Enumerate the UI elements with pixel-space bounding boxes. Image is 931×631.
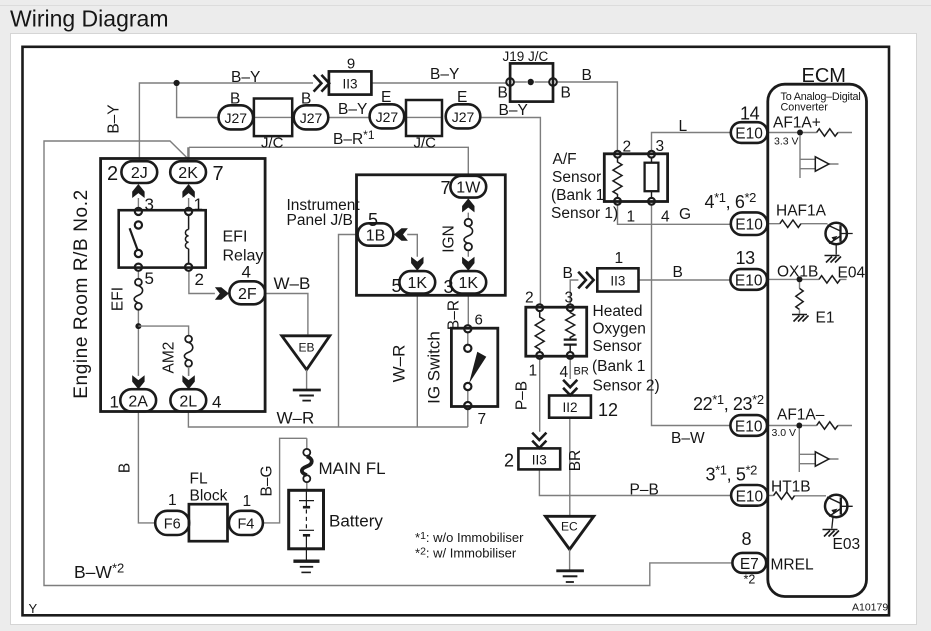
svg-text:II3: II3 [532, 452, 547, 467]
label B after J19 [582, 67, 592, 84]
EFI relay box [119, 210, 206, 267]
svg-text:IGN: IGN [441, 225, 458, 253]
svg-text:EFI: EFI [223, 229, 248, 246]
wire 2K pin 1 stem into relay [188, 198, 190, 208]
node dot AF1A+ [797, 130, 803, 136]
svg-text:5: 5 [392, 276, 402, 296]
wire 2J pin 3 stem into relay [137, 198, 139, 208]
label W-B [274, 274, 311, 293]
connector oval 1W [450, 176, 486, 198]
label 14 pin [740, 104, 760, 124]
svg-text:OX1B: OX1B [777, 264, 818, 281]
connector oval 1B [358, 223, 394, 245]
label *2 under E7 [744, 573, 756, 587]
triangle amplifier EB [282, 336, 330, 370]
svg-text:B–Y: B–Y [338, 101, 367, 118]
wire node down to 2A [137, 329, 139, 376]
wire IGN fuse chain from 1W to 1K pin 3 [467, 213, 469, 257]
svg-text:2A: 2A [128, 393, 148, 410]
svg-text:8: 8 [742, 529, 752, 549]
label B-W [671, 430, 705, 447]
svg-text:G: G [679, 206, 691, 223]
J junction box J19 J/C [510, 63, 553, 101]
svg-text:J19 J/C: J19 J/C [503, 49, 549, 64]
svg-text:B–W: B–W [671, 430, 705, 447]
wire EB to ground [306, 370, 308, 390]
arrow dart into 1K pin3 [462, 257, 474, 271]
label J/C no.2 [414, 135, 437, 152]
arrow dart into 2J [132, 184, 144, 198]
resistor ECM HT1B [774, 492, 795, 499]
svg-text:W–R: W–R [390, 345, 409, 383]
wire ECM HAF1A base feed [768, 223, 828, 225]
arrow dart into 2K [182, 184, 194, 198]
svg-text:Sensor: Sensor [552, 169, 601, 186]
svg-text:E10: E10 [735, 272, 763, 289]
fuse AM2 [184, 336, 192, 376]
fuse MAIN FL [302, 449, 312, 482]
op-amp buffer AF1A- [815, 452, 829, 466]
svg-text:4: 4 [661, 209, 670, 226]
wire ECM OX1B net [768, 279, 847, 313]
svg-text:II2: II2 [562, 400, 577, 415]
wire ECM HT1B base feed [768, 495, 827, 497]
wire node to AM2 fuse branch [138, 326, 188, 376]
relay coil [185, 215, 188, 263]
connector oval J27 d [446, 104, 481, 128]
svg-text:EC: EC [561, 520, 578, 534]
svg-text:E7: E7 [740, 556, 759, 573]
svg-text:Engine Room R/B No.2: Engine Room R/B No.2 [71, 189, 92, 399]
svg-text:Battery: Battery [329, 512, 383, 531]
label Heated Oxygen Sensor block [592, 303, 660, 395]
svg-text:2: 2 [504, 451, 514, 471]
svg-text:EFI: EFI [110, 287, 127, 311]
svg-text:II3: II3 [610, 273, 625, 288]
battery box [289, 490, 324, 549]
svg-text:A10179: A10179 [852, 602, 888, 614]
svg-text:A/F: A/F [553, 151, 577, 168]
svg-text:P–B: P–B [630, 482, 659, 499]
transistor HAF1A [826, 223, 853, 255]
svg-text:(Bank 1: (Bank 1 [551, 187, 604, 204]
arrow dart into 2A [132, 375, 144, 389]
svg-text:MREL: MREL [771, 557, 814, 574]
svg-text:J/C: J/C [414, 135, 437, 152]
svg-text:B–R: B–R [446, 300, 463, 330]
page title [10, 6, 168, 32]
svg-text:F6: F6 [164, 517, 181, 533]
svg-text:(Bank 1: (Bank 1 [592, 358, 645, 375]
svg-text:B: B [673, 264, 683, 281]
svg-text:*2: *2 [744, 573, 756, 587]
label 7 left of 1W [441, 178, 451, 198]
svg-text:3: 3 [145, 195, 154, 214]
svg-text:E10: E10 [735, 418, 763, 435]
svg-text:7: 7 [441, 178, 451, 198]
label A/F pin 1 [627, 209, 636, 226]
wire B-Y between J27 connectors [328, 117, 369, 119]
label E1 [816, 310, 835, 327]
label 1 above II3 no.1 [615, 250, 624, 267]
label 3 relay pin [145, 195, 154, 214]
wire W-R from 2L to IG switch pin 7 [188, 409, 467, 427]
svg-text:II3: II3 [342, 77, 357, 92]
triangle ground symbol EC [546, 516, 594, 549]
connector oval E10 pin22/23 [730, 415, 767, 436]
J19 left pin circle [506, 78, 514, 86]
IG switch blade [469, 352, 486, 384]
note immobiliser legend [415, 530, 524, 561]
label 5 above 1B [368, 210, 378, 230]
wire 2K stub to B-R run [187, 147, 189, 161]
label AM2 fuse vertical [161, 342, 178, 374]
svg-text:E1: E1 [816, 310, 835, 327]
wire B from A/F sensor pin 2 riser (J19 feed) already drawn; pin3 L wire to E10 14 [652, 133, 731, 151]
wire B from F6 up to 2A [138, 412, 155, 523]
svg-text:B: B [561, 85, 571, 102]
label B right of J19 [561, 85, 571, 102]
junction box J/C no.2 [406, 100, 442, 136]
resistor ECM AF1A- [817, 422, 838, 429]
svg-text:2J: 2J [131, 165, 148, 182]
label A10179 drawing number [852, 602, 888, 614]
svg-text:B–Y: B–Y [231, 69, 260, 86]
svg-text:2: 2 [195, 270, 204, 289]
connector oval 2F [229, 281, 265, 304]
wire ECM AF1A- net with 3.0V node [768, 426, 852, 473]
label 1 relay pin [194, 195, 203, 214]
wire B-Y from J27 to heated oxygen sensor pin 2 [481, 118, 541, 305]
label BR small [574, 366, 589, 378]
ground EC [556, 571, 584, 582]
svg-text:2K: 2K [178, 165, 198, 182]
label P-B horizontal [630, 482, 659, 499]
svg-text:E10: E10 [736, 488, 764, 505]
label BR vertical [567, 450, 584, 472]
svg-text:4: 4 [242, 263, 251, 282]
connector oval 1K pin5 [399, 271, 435, 293]
node dot under EFI fuse [135, 323, 141, 329]
node dot OX1B [797, 276, 803, 282]
wire IG switch internal stems [467, 333, 469, 403]
arrow dart into 1W [462, 198, 474, 212]
svg-text:2L: 2L [179, 393, 197, 410]
label B above J27 a [230, 91, 240, 108]
svg-text:3: 3 [565, 290, 574, 307]
wire ECM AF1A+ net with 3.3V node [768, 133, 852, 179]
svg-text:*2: w/ Immobiliser: *2: w/ Immobiliser [415, 546, 517, 561]
connector oval E10 pin14 [731, 122, 768, 143]
label 13 pin [736, 248, 756, 268]
label heated O2 pin 4 [560, 364, 569, 381]
svg-text:*1: w/o Immobiliser: *1: w/o Immobiliser [415, 530, 524, 545]
svg-text:Converter: Converter [781, 102, 829, 114]
label 3.0 V [772, 427, 797, 439]
wire 1K pin 5 down to W-R run [416, 294, 418, 427]
resistor ECM HAF1A [780, 220, 801, 227]
svg-text:1: 1 [627, 209, 636, 226]
svg-text:2: 2 [623, 139, 632, 156]
arrow dart into 1B [394, 228, 408, 240]
wire J/C no.1 middle link [254, 116, 292, 118]
svg-text:L: L [679, 118, 688, 135]
label B-R*1 [333, 128, 375, 148]
label A/F pin 3 [656, 138, 665, 155]
J19 right pin circle [549, 78, 557, 86]
svg-text:B: B [301, 91, 311, 108]
connector oval 1K pin3 [450, 271, 486, 293]
svg-text:9: 9 [347, 56, 355, 73]
label G wire [679, 206, 691, 223]
junction box J/C no.1 [254, 99, 292, 137]
svg-text:BR: BR [567, 450, 584, 472]
connector oval 2A [120, 389, 156, 411]
A/F sensor box [604, 154, 667, 202]
J19 node dot [528, 79, 534, 85]
label heated O2 pin 2 [525, 290, 534, 307]
label B-Y after II3 [430, 66, 459, 83]
fusible link box II3 no.1 [597, 268, 638, 291]
label 3*1, 5*2 pins [706, 463, 758, 485]
label B after II3 no.1 [673, 264, 683, 281]
svg-text:B–Y: B–Y [499, 102, 528, 119]
label E03 [833, 536, 861, 553]
wire MAIN FL to battery [306, 482, 308, 490]
svg-text:B: B [563, 265, 573, 282]
svg-text:Sensor 1): Sensor 1) [551, 205, 618, 222]
connector oval 2K [170, 161, 206, 183]
label 3 left of 1K [444, 277, 454, 297]
svg-text:E: E [381, 89, 391, 106]
label P-B vertical [514, 381, 531, 410]
A/F sensor pin circles [614, 151, 655, 205]
svg-text:2: 2 [107, 163, 118, 185]
svg-text:J27: J27 [225, 110, 248, 126]
heated oxygen sensor box [526, 307, 587, 356]
svg-text:Block: Block [190, 488, 228, 505]
wire relay pin 5 chain to EFI fuse and node [137, 271, 139, 326]
IG switch contact circles [464, 325, 471, 409]
label 2 relay pin [195, 270, 204, 289]
svg-text:1: 1 [168, 492, 177, 509]
svg-text:4: 4 [212, 393, 221, 412]
wire B-Y branch down to J27 row [177, 86, 219, 118]
ground EB [293, 390, 321, 401]
svg-text:Wiring Diagram: Wiring Diagram [10, 6, 168, 32]
label B-Y top left [231, 69, 260, 86]
chevron pair into II3 fuse near E10 13 [578, 272, 593, 289]
chevron pair down into II3 no.2 [532, 433, 546, 448]
chevron pair down into II2 [563, 380, 577, 395]
connector oval 2L [170, 389, 206, 411]
ECM outline box [768, 84, 867, 596]
connector oval J27 c [370, 104, 405, 128]
heated O2 internal resistor and capacitor pin3 side [564, 311, 577, 352]
svg-text:E10: E10 [735, 217, 763, 234]
label 1 above F6 [168, 492, 177, 509]
connector oval F6 [155, 511, 189, 535]
svg-text:E04: E04 [838, 265, 866, 282]
wire B-Y from 2J up and across top [139, 82, 617, 161]
svg-text:Oxygen: Oxygen [593, 321, 646, 338]
label A/F pin 2 [623, 139, 632, 156]
wire BR from heated O2 pin 4 through II2 to EC ground [569, 359, 571, 516]
label B above J27 b [301, 91, 311, 108]
label B-G vertical [259, 465, 276, 496]
wire G from A/F sensor pin 1 to E10 [618, 205, 731, 225]
label 7 right of 2K [213, 163, 224, 185]
label IG Switch vertical [425, 331, 444, 404]
label AF1A+ [773, 115, 821, 132]
svg-text:3.3 V: 3.3 V [774, 136, 799, 148]
svg-text:E03: E03 [833, 536, 861, 553]
svg-text:1K: 1K [459, 275, 479, 292]
wire B from heated O2 pin 3 to II3 connector and E10 13 [570, 280, 730, 304]
label IGN vertical [441, 225, 458, 253]
label 7 IG switch pin [478, 411, 487, 428]
svg-text:1: 1 [615, 250, 624, 267]
Engine Room R/B No.2 box [101, 159, 266, 412]
svg-text:1: 1 [529, 363, 538, 380]
ground (chassis) HAF1A emitter [825, 256, 842, 263]
label heated O2 pin 1 [529, 363, 538, 380]
svg-text:1: 1 [110, 393, 119, 412]
svg-text:AF1A–: AF1A– [777, 407, 825, 424]
connector oval J27 a [219, 105, 254, 129]
svg-text:14: 14 [740, 104, 760, 124]
svg-text:6: 6 [475, 312, 483, 329]
A/F sensor heater element [645, 158, 659, 198]
label 3.3 V [774, 136, 799, 148]
svg-text:AF1A+: AF1A+ [773, 115, 821, 132]
svg-text:13: 13 [736, 248, 756, 268]
svg-text:B: B [230, 91, 240, 108]
svg-text:7: 7 [478, 411, 487, 428]
connector oval F4 [229, 511, 263, 535]
svg-text:5: 5 [368, 210, 378, 230]
transistor HT1B [825, 495, 853, 529]
chevron pair into II3 fuse 9 [314, 75, 330, 92]
fusible link box II2 [549, 396, 591, 418]
svg-text:B–Y: B–Y [106, 104, 123, 133]
label 2 left of II3 no.2 [504, 451, 514, 471]
svg-text:AM2: AM2 [161, 342, 178, 374]
svg-text:E10: E10 [735, 126, 763, 143]
connector oval E10 pin13 [730, 269, 767, 290]
svg-text:IG Switch: IG Switch [425, 331, 444, 404]
IG Switch box [451, 328, 497, 406]
fuse IGN [464, 219, 473, 251]
label AF1A- [777, 407, 825, 424]
node junction dot on B-Y [174, 80, 180, 86]
label 4 right of 2L [212, 393, 221, 412]
label E above J27 c [381, 89, 391, 106]
svg-text:Panel J/B: Panel J/B [287, 212, 353, 229]
svg-text:1W: 1W [456, 180, 481, 197]
svg-text:F4: F4 [237, 517, 254, 533]
label HT1B [771, 479, 811, 496]
label 2 left of 2J [107, 163, 118, 185]
svg-text:3: 3 [656, 138, 665, 155]
label 8 pin [742, 529, 752, 549]
label B-W*2 [74, 561, 124, 583]
ground battery [293, 561, 319, 572]
svg-text:B–Y: B–Y [430, 66, 459, 83]
fusible link box II3 no.2 [518, 448, 560, 469]
wire 1B feed down to W-R run [339, 235, 357, 428]
arrow dart into 1K pin5 [411, 257, 423, 271]
wire from A/F sensor pin 4 down to B-W run to E10 AF1A- [652, 205, 731, 426]
svg-text:HAF1A: HAF1A [776, 203, 827, 220]
label B-Y middle row [338, 101, 367, 118]
label HAF1A [776, 203, 827, 220]
label L wire [679, 118, 688, 135]
svg-text:3: 3 [444, 277, 454, 297]
label To Analog-Digital Converter [781, 91, 861, 114]
svg-text:BR: BR [574, 366, 589, 378]
Instrument Panel J/B box [357, 175, 506, 295]
wire relay pin 2 to 2F connector [189, 271, 215, 294]
label 5 left of 1K [392, 276, 402, 296]
svg-text:W–R: W–R [277, 409, 315, 428]
battery internal plates [299, 490, 314, 549]
svg-text:Sensor: Sensor [593, 338, 642, 355]
svg-text:5: 5 [145, 269, 154, 288]
svg-text:B: B [582, 67, 592, 84]
resistor OX1B to E04 [819, 276, 840, 283]
arrow dart into 2L [182, 375, 194, 389]
wire J/C no.2 middle link [406, 116, 442, 118]
svg-text:Heated: Heated [593, 303, 643, 320]
wire B-R from 1K pin 3 to IG switch pin 6 [467, 294, 469, 326]
svg-text:J27: J27 [300, 110, 323, 126]
connector oval E10 pin3/5 [731, 485, 768, 506]
resistor ECM AF1A+ [817, 129, 838, 136]
label E above J27 d [457, 89, 467, 106]
svg-text:ECM: ECM [802, 65, 846, 87]
svg-text:B–G: B–G [259, 465, 276, 496]
svg-text:P–B: P–B [514, 381, 531, 410]
svg-text:2F: 2F [238, 286, 257, 303]
svg-text:7: 7 [213, 163, 224, 185]
label B-Y vertical left [106, 104, 123, 133]
svg-text:J27: J27 [376, 109, 399, 125]
connector oval 2J [121, 161, 157, 183]
label 22*1, 23*2 pins [693, 392, 764, 414]
svg-text:Sensor 2): Sensor 2) [593, 378, 660, 395]
label A/F pin 4 [661, 209, 670, 226]
svg-text:J/C: J/C [261, 135, 284, 152]
svg-text:HT1B: HT1B [771, 479, 811, 496]
svg-text:B: B [117, 463, 134, 473]
wire B-G from F4 up to MAIN FL [263, 438, 307, 523]
wire EC to ground [569, 549, 571, 570]
connector oval E10 pin4/6 [731, 212, 768, 235]
wire B-R*1 / B-W*2 MREL run: left riser, top run, bottom run to E7 [44, 141, 731, 586]
label OX1B [777, 264, 818, 281]
label 4*1, 6*2 pins [705, 190, 757, 212]
label B-Y under J19 [499, 102, 528, 119]
svg-text:3.0 V: 3.0 V [772, 427, 797, 439]
label Battery [329, 512, 383, 531]
label W-R vertical [390, 345, 409, 383]
node dot AF1A- [796, 423, 802, 429]
label J/C no.1 [261, 135, 284, 152]
label Y frame id [29, 601, 38, 616]
wire battery to ground [305, 549, 307, 561]
label Engine Room R/B No.2 vertical [71, 189, 92, 399]
